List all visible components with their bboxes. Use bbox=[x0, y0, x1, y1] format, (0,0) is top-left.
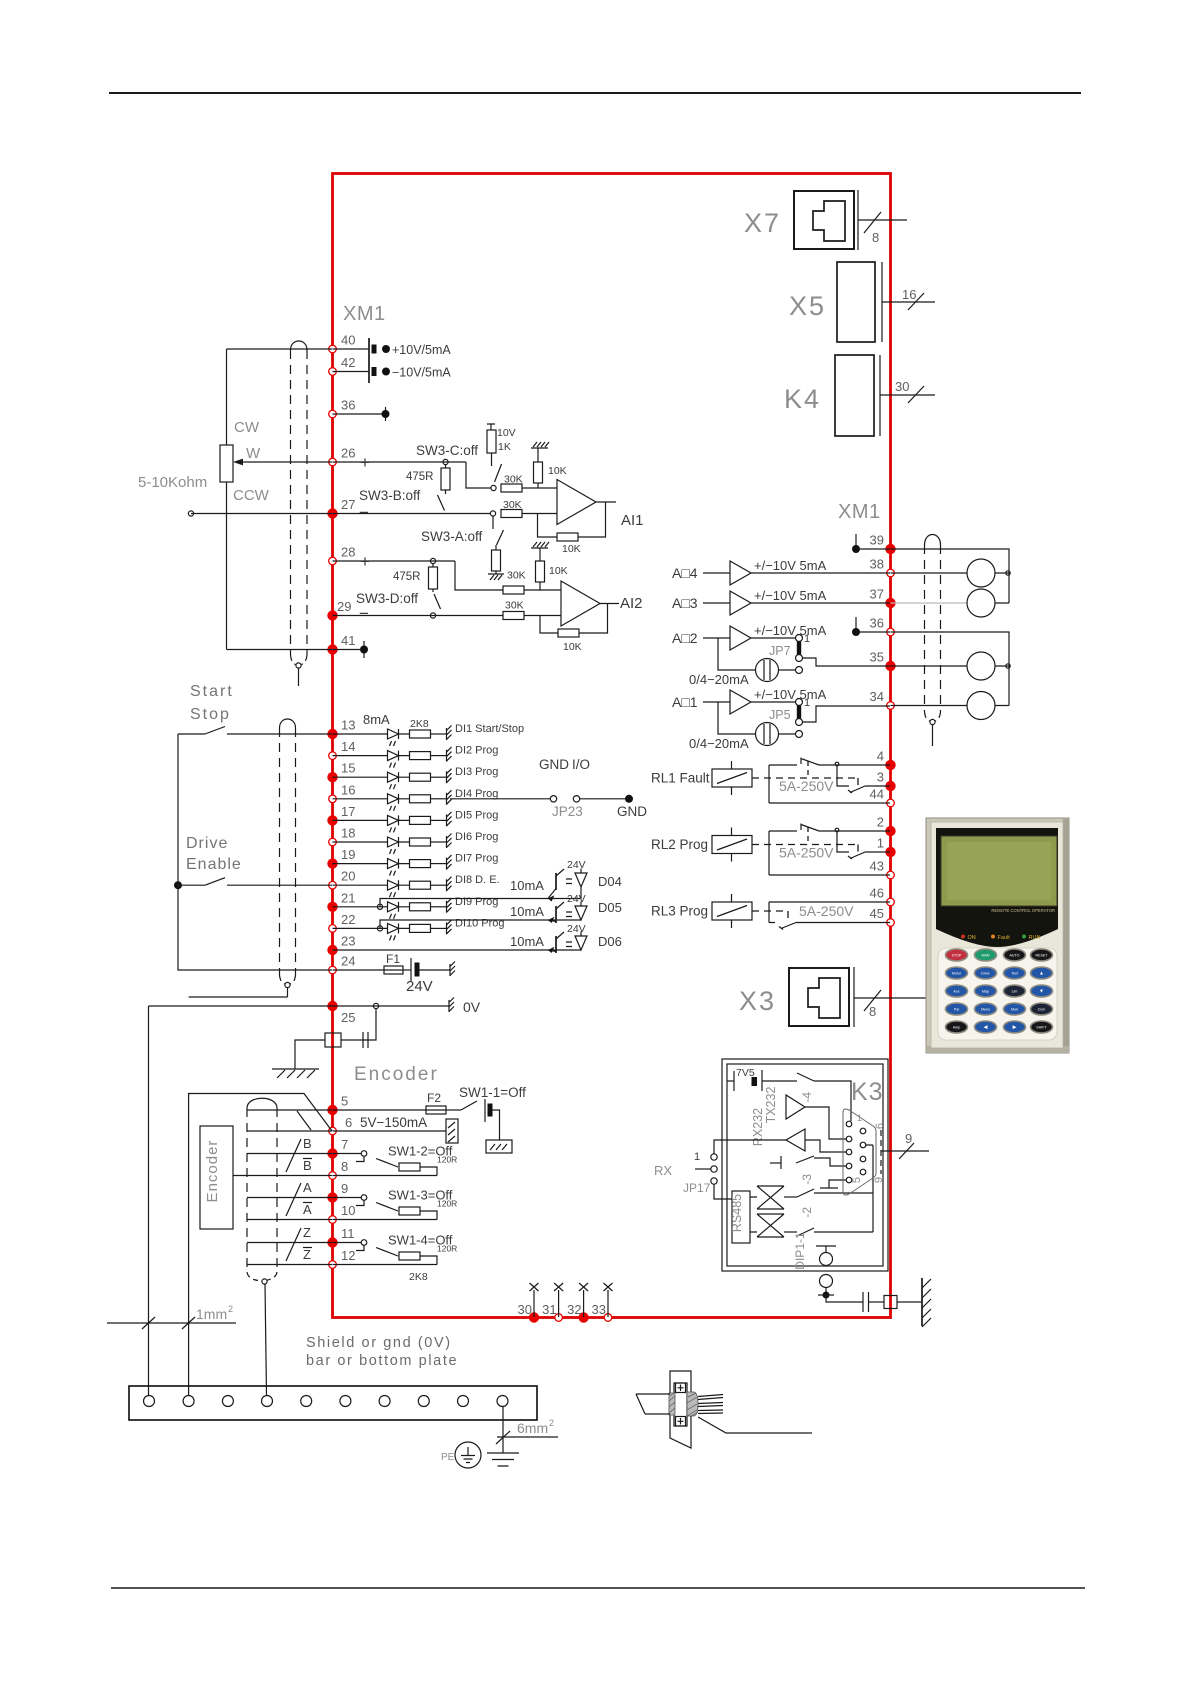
svg-text:45: 45 bbox=[870, 906, 884, 921]
feedback 10K (AI2) bbox=[540, 616, 558, 634]
resistor 30K (AI2 -) bbox=[503, 612, 524, 620]
svg-text:35: 35 bbox=[870, 650, 884, 665]
svg-text:-4: -4 bbox=[800, 1092, 814, 1103]
ground bar hole 10 bbox=[497, 1396, 508, 1407]
wire encoder row B (7) bbox=[247, 1153, 332, 1155]
terminal XM1-14 bbox=[329, 752, 337, 760]
chassis filter capacitor bbox=[823, 1292, 830, 1299]
svg-text:5A-250V: 5A-250V bbox=[799, 903, 854, 919]
svg-text:30: 30 bbox=[518, 1302, 532, 1317]
svg-text:F2: F2 bbox=[427, 1091, 441, 1105]
svg-text:120R: 120R bbox=[437, 1155, 457, 1165]
terminal XM1-18 bbox=[329, 838, 337, 846]
wire encoder row Abar (10) bbox=[247, 1219, 332, 1221]
svg-text:28: 28 bbox=[341, 545, 355, 560]
svg-text:30: 30 bbox=[895, 379, 909, 394]
svg-text:2K8: 2K8 bbox=[409, 1271, 428, 1283]
wire encoder row Z (11) bbox=[247, 1242, 332, 1244]
wire X7 8 bbox=[858, 219, 907, 221]
transformer X2 bbox=[757, 1214, 784, 1237]
+10V supply symbols bbox=[333, 348, 370, 350]
relay RL1 contacts bbox=[769, 758, 890, 804]
svg-text:15: 15 bbox=[341, 761, 355, 776]
relay RL1 coil bbox=[712, 769, 752, 787]
resistor 475R (AI2) bbox=[429, 567, 438, 589]
terminal XM1-1 (right) bbox=[885, 847, 895, 857]
svg-text:34: 34 bbox=[870, 689, 884, 704]
dimension 1mm2 bbox=[107, 1322, 236, 1324]
svg-text:29: 29 bbox=[337, 599, 351, 614]
svg-text:21: 21 bbox=[341, 890, 355, 905]
chassis box (row 6) bbox=[333, 1130, 447, 1132]
node terminal 22 jog to DO5 bbox=[377, 926, 382, 931]
meter wires group 38/37 bbox=[891, 549, 1010, 603]
svg-text:SW3-A:off: SW3-A:off bbox=[421, 529, 483, 544]
svg-text:AI1: AI1 bbox=[621, 512, 644, 529]
svg-text:−: − bbox=[359, 604, 369, 623]
wire W to terminal 26 bbox=[240, 461, 332, 463]
svg-text:2: 2 bbox=[877, 815, 884, 830]
svg-text:9: 9 bbox=[873, 1177, 885, 1183]
ground bar hole 1 bbox=[144, 1396, 155, 1407]
relay RL3 contacts bbox=[769, 902, 890, 929]
terminal XM1-6 bbox=[329, 1127, 337, 1135]
resistor 30K (AI1 -) bbox=[501, 510, 522, 518]
svg-text:SW3-D:off: SW3-D:off bbox=[356, 591, 418, 606]
svg-text:DI9 Prog: DI9 Prog bbox=[455, 896, 498, 908]
svg-text:40: 40 bbox=[341, 333, 355, 348]
svg-text:MAN: MAN bbox=[982, 954, 990, 958]
shield cable (encoder) bbox=[247, 1098, 277, 1108]
svg-text:5-10Kohm: 5-10Kohm bbox=[138, 474, 207, 491]
optocoupler input DI6 with resistor 2K8 bbox=[333, 837, 447, 854]
svg-text:JP23: JP23 bbox=[552, 804, 583, 819]
svg-text:36: 36 bbox=[341, 398, 355, 413]
svg-text:475R: 475R bbox=[393, 571, 421, 583]
svg-text:4: 4 bbox=[877, 749, 884, 764]
transistor output DO4 with zener 24V bbox=[555, 873, 557, 890]
terminal XM1-3 (right) bbox=[885, 781, 895, 791]
earth symbol bbox=[487, 1453, 519, 1466]
svg-text:1mm: 1mm bbox=[196, 1306, 227, 1322]
terminal XM1-11 bbox=[327, 1237, 337, 1247]
svg-text:24: 24 bbox=[341, 954, 355, 969]
svg-text:1: 1 bbox=[804, 697, 810, 709]
wire +24 bus bbox=[178, 734, 332, 970]
wire CW to terminal 40 bbox=[227, 348, 333, 350]
svg-text:8: 8 bbox=[872, 230, 879, 245]
terminal XM1-31 (bottom) bbox=[555, 1314, 563, 1322]
svg-text:31: 31 bbox=[542, 1302, 556, 1317]
wire terminal 41 bbox=[227, 649, 333, 651]
svg-text:Z: Z bbox=[303, 1225, 311, 1240]
shield cable (AO meters) bbox=[925, 535, 941, 546]
svg-text:D05: D05 bbox=[598, 900, 622, 915]
svg-text:Stop: Stop bbox=[190, 706, 231, 723]
svg-text:−: − bbox=[359, 503, 369, 522]
svg-text:19: 19 bbox=[341, 847, 355, 862]
wire K3 9 bbox=[881, 1150, 929, 1152]
switch SW1-2 with 120R bbox=[333, 1153, 362, 1155]
svg-text:22: 22 bbox=[341, 912, 355, 927]
svg-text:-3: -3 bbox=[800, 1174, 814, 1185]
terminal XM1-33 (bottom) bbox=[604, 1314, 612, 1322]
wire bar to PE bbox=[502, 1407, 504, 1454]
wire encoder row Zbar (12) bbox=[247, 1264, 332, 1266]
op-amp AI1 bbox=[557, 480, 596, 525]
terminal XM1-26 bbox=[329, 458, 337, 466]
svg-text:+/−10V 5mA: +/−10V 5mA bbox=[754, 558, 827, 573]
transistor output DO5 with zener 24V bbox=[555, 906, 557, 923]
connector K4 bbox=[835, 355, 874, 436]
svg-text:DIP1-1: DIP1-1 bbox=[793, 1232, 807, 1270]
terminal XM1-40 bbox=[329, 345, 337, 353]
terminal XM1-36 (right) bbox=[887, 628, 895, 636]
svg-text:JP7: JP7 bbox=[769, 644, 791, 658]
chassis box (SW1-1) bbox=[486, 1140, 512, 1153]
optocoupler input DI7 with resistor 2K8 bbox=[333, 859, 447, 876]
terminal XM1-21 bbox=[327, 902, 337, 912]
terminal XM1-45 (right) bbox=[887, 919, 895, 927]
svg-text:25: 25 bbox=[341, 1010, 355, 1025]
switch SW3-A bbox=[492, 516, 494, 529]
node terminal 36 (right) bbox=[855, 617, 857, 633]
keypad remote control operator bbox=[926, 818, 1069, 1053]
svg-text:I/O: I/O bbox=[572, 757, 590, 772]
switch SW1-1 + cap to chassis bbox=[446, 1109, 461, 1111]
ground bar hole 2 bbox=[183, 1396, 194, 1407]
optocoupler input DI2 with resistor 2K8 bbox=[333, 751, 447, 768]
svg-text:RUN: RUN bbox=[1029, 935, 1041, 941]
svg-text:A: A bbox=[303, 1180, 312, 1195]
svg-text:DI10 Prog: DI10 Prog bbox=[455, 917, 505, 929]
svg-text:Encoder: Encoder bbox=[204, 1140, 221, 1203]
ferrite box bbox=[325, 1033, 341, 1047]
svg-text:+: + bbox=[360, 453, 370, 472]
optocoupler input DI9 with resistor 2K8 bbox=[333, 902, 447, 919]
terminal XM1-44 (right) bbox=[887, 799, 895, 807]
svg-text:Menu: Menu bbox=[981, 1008, 990, 1012]
resistor 475R (AI1) bbox=[441, 468, 450, 490]
battery 7V5 bbox=[727, 1080, 734, 1082]
svg-text:JP17: JP17 bbox=[683, 1181, 711, 1195]
cable gland detail bbox=[636, 1371, 812, 1448]
meter 3 bbox=[967, 652, 995, 680]
interface module K3 box bbox=[722, 1059, 888, 1271]
svg-text:DI5 Prog: DI5 Prog bbox=[455, 809, 498, 821]
terminal XM1-41 bbox=[327, 644, 337, 654]
wire 37 gray bbox=[891, 602, 968, 604]
svg-text:D04: D04 bbox=[598, 874, 622, 889]
svg-text:+/−10V 5mA: +/−10V 5mA bbox=[754, 687, 827, 702]
svg-text:Par: Par bbox=[954, 1008, 960, 1012]
svg-text:0V: 0V bbox=[463, 999, 481, 1015]
svg-text:3: 3 bbox=[877, 770, 884, 785]
svg-text:18: 18 bbox=[341, 826, 355, 841]
terminal XM1-24 bbox=[329, 966, 337, 974]
svg-text:D06: D06 bbox=[598, 934, 622, 949]
wire shield drain bbox=[189, 996, 288, 998]
resistor 30K (AI2 +) bbox=[503, 586, 524, 594]
terminal XM1-23 bbox=[327, 945, 337, 955]
dashed pin strip bbox=[880, 1130, 882, 1174]
switch Start/Stop bbox=[178, 733, 205, 735]
svg-text:Test: Test bbox=[1011, 972, 1018, 976]
svg-text:5A-250V: 5A-250V bbox=[779, 778, 834, 794]
svg-text:10mA: 10mA bbox=[510, 878, 544, 893]
wire CCW down bbox=[226, 482, 228, 650]
pullup 10V 1K (AI1) bbox=[487, 424, 495, 430]
optocoupler input DI10 with resistor 2K8 bbox=[333, 923, 447, 940]
resistor 10K to gnd (AI2) bbox=[536, 561, 545, 582]
terminal XM1-37 (right) bbox=[885, 598, 895, 608]
wire drain to bar bbox=[188, 1315, 190, 1395]
encoder box bbox=[200, 1126, 233, 1229]
node terminal 39 bbox=[855, 534, 857, 550]
terminal XM1-19 bbox=[327, 858, 337, 868]
terminal XM1-9 bbox=[327, 1192, 337, 1202]
terminal XM1-38 (right) bbox=[887, 569, 895, 577]
svg-text:W: W bbox=[246, 445, 261, 462]
switch DIP1-1 bbox=[784, 1231, 797, 1233]
terminal XM1-34 (right) bbox=[887, 702, 895, 710]
control board outline (red) bbox=[333, 174, 891, 1318]
svg-text:DI1 Start/Stop: DI1 Start/Stop bbox=[455, 723, 524, 735]
fuse F2 bbox=[333, 1109, 427, 1111]
svg-text:5: 5 bbox=[341, 1094, 348, 1109]
svg-text:9: 9 bbox=[905, 1131, 912, 1146]
twisted pair marks bbox=[286, 1111, 311, 1261]
ground bar hole 9 bbox=[458, 1396, 469, 1407]
svg-text:A□1: A□1 bbox=[672, 694, 698, 710]
terminal XM1-39 (right) bbox=[885, 544, 895, 554]
svg-text:10K: 10K bbox=[549, 565, 568, 577]
svg-text:RESET: RESET bbox=[1036, 954, 1049, 958]
Y-capacitor to chassis bbox=[363, 1009, 376, 1040]
svg-text:DI8 D. E.: DI8 D. E. bbox=[455, 874, 500, 886]
svg-text:Fault: Fault bbox=[998, 935, 1011, 941]
svg-text:2: 2 bbox=[549, 1418, 554, 1428]
optocoupler input DI1 with resistor 2K8 bbox=[333, 729, 447, 746]
potentiometer 5-10Kohm bbox=[220, 445, 233, 482]
svg-text:24V: 24V bbox=[567, 859, 586, 871]
chassis wall bbox=[921, 1278, 923, 1326]
svg-text:10mA: 10mA bbox=[510, 904, 544, 919]
page top rule bbox=[109, 92, 1081, 94]
svg-text:-2: -2 bbox=[800, 1207, 814, 1218]
ground bar hole 4 bbox=[262, 1396, 273, 1407]
wire RS485 links bbox=[750, 1197, 757, 1232]
terminal XM1-35 (right) bbox=[885, 661, 895, 671]
svg-text:▲: ▲ bbox=[1039, 971, 1044, 977]
svg-text:Aux: Aux bbox=[953, 990, 959, 994]
wire RX232 out to JP17 bbox=[714, 1140, 786, 1154]
jumper JP17 bbox=[711, 1154, 717, 1160]
svg-text:44: 44 bbox=[870, 787, 884, 802]
wire TX232 out bbox=[805, 1107, 846, 1139]
svg-text:A□3: A□3 bbox=[672, 595, 698, 611]
svg-text:46: 46 bbox=[870, 886, 884, 901]
switch -4 bbox=[797, 1073, 814, 1081]
svg-text:30K: 30K bbox=[504, 474, 523, 486]
svg-text:+/−10V 5mA: +/−10V 5mA bbox=[754, 588, 827, 603]
svg-text:K3: K3 bbox=[851, 1078, 884, 1106]
switch SW3-B bbox=[445, 490, 447, 494]
switch SW1-4 with 120R bbox=[333, 1242, 362, 1244]
svg-text:DI2 Prog: DI2 Prog bbox=[455, 745, 498, 757]
svg-text:8: 8 bbox=[869, 1004, 876, 1019]
node terminal 21 jog to DO4 bbox=[377, 904, 382, 909]
terminal XM1-5 bbox=[327, 1105, 337, 1115]
svg-text:K4: K4 bbox=[784, 384, 821, 414]
switch -3 bbox=[780, 1156, 782, 1169]
hatch bar 24V return bbox=[450, 962, 455, 977]
svg-text:−10V/5mA: −10V/5mA bbox=[392, 366, 451, 380]
terminal XM1-22 bbox=[329, 925, 337, 933]
svg-text:24V: 24V bbox=[567, 893, 586, 905]
svg-text:1K: 1K bbox=[498, 441, 511, 453]
terminal XM1-43 (right) bbox=[887, 871, 895, 879]
svg-text:39: 39 bbox=[870, 533, 884, 548]
page bottom rule bbox=[111, 1587, 1085, 1589]
svg-text:SW3-B:off: SW3-B:off bbox=[359, 488, 421, 503]
wire 26 + bbox=[333, 461, 467, 463]
svg-text:33: 33 bbox=[592, 1302, 606, 1317]
svg-text:ON: ON bbox=[968, 935, 976, 941]
svg-text:STOP: STOP bbox=[952, 954, 962, 958]
battery 24V bbox=[403, 969, 411, 971]
svg-text:+/−10V 5mA: +/−10V 5mA bbox=[754, 623, 827, 638]
terminal XM1-7 bbox=[327, 1148, 337, 1158]
svg-text:10: 10 bbox=[341, 1203, 355, 1218]
svg-text:Drive: Drive bbox=[186, 835, 228, 852]
terminal XM1-36 bbox=[329, 410, 337, 418]
wire X5 16 bbox=[882, 301, 935, 303]
terminal XM1-17 bbox=[327, 815, 337, 825]
svg-text:12: 12 bbox=[341, 1248, 355, 1263]
wire RX232 in bbox=[805, 1140, 846, 1152]
svg-text:GND: GND bbox=[539, 757, 569, 772]
svg-text:5V−150mA: 5V−150mA bbox=[360, 1115, 427, 1130]
terminal XM1-28 bbox=[329, 557, 337, 565]
svg-text:RL1 Fault: RL1 Fault bbox=[651, 771, 710, 786]
svg-text:8: 8 bbox=[341, 1159, 348, 1174]
terminal XM1-29 bbox=[327, 610, 337, 620]
svg-text:Drive: Drive bbox=[981, 972, 989, 976]
wire pin5 common bbox=[820, 1180, 846, 1188]
svg-text:REMOTE CONTROL OPERATOR: REMOTE CONTROL OPERATOR bbox=[991, 908, 1055, 913]
svg-text:+10V/5mA: +10V/5mA bbox=[392, 343, 451, 357]
svg-text:120R: 120R bbox=[437, 1244, 457, 1254]
svg-text:5A-250V: 5A-250V bbox=[779, 845, 834, 861]
svg-text:Start: Start bbox=[190, 683, 234, 700]
svg-text:5: 5 bbox=[851, 1177, 863, 1183]
svg-text:20: 20 bbox=[341, 869, 355, 884]
svg-text:Mon: Mon bbox=[1011, 1008, 1018, 1012]
dimension 6mm2 bbox=[497, 1436, 558, 1438]
svg-text:6: 6 bbox=[345, 1115, 352, 1130]
svg-text:24V: 24V bbox=[567, 923, 586, 935]
switch SW1-3 with 120R bbox=[333, 1197, 362, 1199]
svg-text:32: 32 bbox=[567, 1302, 581, 1317]
wire encoder row 5 bbox=[247, 1109, 332, 1111]
svg-text:DI3 Prog: DI3 Prog bbox=[455, 766, 498, 778]
shield cable (analog) bbox=[291, 341, 308, 350]
svg-text:SW1-1=Off: SW1-1=Off bbox=[459, 1085, 526, 1100]
wire terminal 27 bbox=[191, 513, 332, 515]
svg-text:30K: 30K bbox=[505, 600, 524, 612]
svg-text:Lim: Lim bbox=[1012, 990, 1018, 994]
connector X3 bbox=[789, 968, 849, 1026]
wire terminal 23 to DO6 bbox=[333, 949, 582, 951]
svg-text:X7: X7 bbox=[744, 208, 781, 238]
buffer RX232 bbox=[786, 1129, 805, 1151]
feedback 10K (AI1) bbox=[538, 514, 558, 538]
svg-text:120R: 120R bbox=[437, 1199, 457, 1209]
svg-text:37: 37 bbox=[870, 587, 884, 602]
relay RL2 contacts bbox=[769, 824, 890, 876]
svg-text:7V5: 7V5 bbox=[736, 1067, 755, 1079]
terminal XM1-4 (right) bbox=[885, 760, 895, 770]
wire JP17 to RS485 bbox=[714, 1184, 732, 1199]
PE symbol bbox=[455, 1442, 481, 1468]
svg-text:16: 16 bbox=[902, 287, 916, 302]
svg-text:Shield or gnd (0V): Shield or gnd (0V) bbox=[306, 1335, 452, 1351]
meter wires group 35/34 bbox=[891, 632, 1010, 706]
svg-text:JP5: JP5 bbox=[769, 708, 791, 722]
svg-text:RL3 Prog: RL3 Prog bbox=[651, 904, 708, 919]
svg-text:Help: Help bbox=[953, 1026, 960, 1030]
svg-text:10K: 10K bbox=[562, 543, 581, 555]
wire K4 30 bbox=[880, 394, 935, 396]
resistor 30K (AI1 +) bbox=[501, 484, 522, 492]
svg-text:AI2: AI2 bbox=[620, 595, 643, 612]
optocoupler input DI5 with resistor 2K8 bbox=[333, 815, 447, 832]
ground bar hole 5 bbox=[301, 1396, 312, 1407]
switch SW3-C bbox=[495, 464, 502, 482]
feedthrough box bbox=[884, 1296, 897, 1309]
terminal XM1-2 (right) bbox=[885, 826, 895, 836]
svg-text:Enable: Enable bbox=[186, 856, 242, 873]
switch Drive Enable bbox=[174, 881, 182, 889]
svg-text:◀: ◀ bbox=[984, 1025, 988, 1031]
svg-text:1: 1 bbox=[877, 836, 884, 851]
jumper DIP1-1 circles bbox=[816, 1245, 836, 1247]
svg-text:10K: 10K bbox=[563, 641, 582, 653]
svg-text:27: 27 bbox=[341, 497, 355, 512]
svg-text:Z: Z bbox=[303, 1247, 311, 1262]
terminal XM1-10 bbox=[329, 1216, 337, 1224]
chassis ground (digital) bbox=[272, 1069, 319, 1078]
fuse F1 bbox=[333, 969, 385, 971]
svg-text:10K: 10K bbox=[548, 465, 567, 477]
svg-text:0/4−20mA: 0/4−20mA bbox=[689, 672, 749, 687]
svg-text:B: B bbox=[303, 1136, 312, 1151]
svg-text:6: 6 bbox=[874, 1123, 886, 1129]
wire 5V feed line bbox=[189, 1094, 332, 1316]
optocoupler input DI8 with resistor 2K8 bbox=[333, 880, 447, 897]
optocoupler input DI3 with resistor 2K8 bbox=[333, 772, 447, 789]
buffer TX232 bbox=[786, 1095, 805, 1119]
svg-text:▼: ▼ bbox=[1039, 989, 1044, 995]
svg-text:0/4−20mA: 0/4−20mA bbox=[689, 736, 749, 751]
relay RL2 coil bbox=[712, 836, 752, 854]
terminal XM1-13 bbox=[327, 729, 337, 739]
meter 2 bbox=[967, 589, 995, 617]
svg-text:XM1: XM1 bbox=[838, 501, 881, 523]
DB9 connector bbox=[843, 1109, 876, 1195]
meter 4 bbox=[967, 692, 995, 720]
